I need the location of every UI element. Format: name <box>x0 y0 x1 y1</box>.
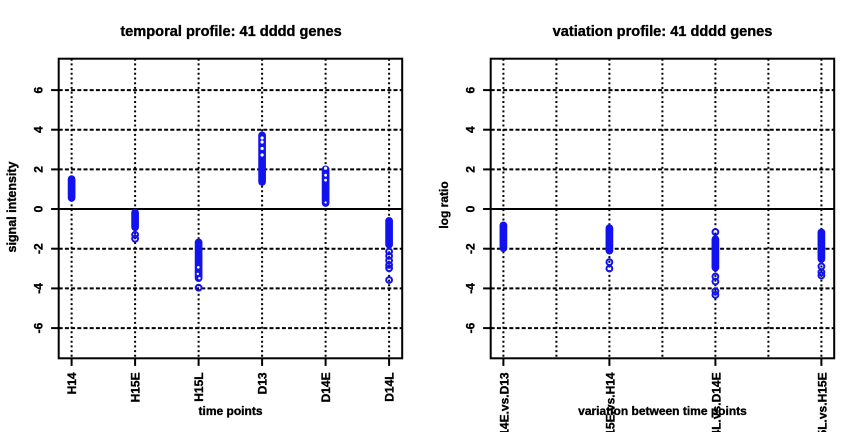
svg-text:D14E: D14E <box>319 372 333 402</box>
svg-text:2: 2 <box>464 166 478 173</box>
strip D13 <box>258 135 266 182</box>
vertical dotted gridlines right <box>503 59 821 359</box>
svg-text:H15L: H15L <box>192 372 206 401</box>
horizontal dashed gridlines right <box>491 90 835 328</box>
svg-text:-6: -6 <box>464 322 478 333</box>
y tick labels left <box>32 86 46 333</box>
plot box right <box>491 59 835 359</box>
strip D14L <box>385 221 393 245</box>
svg-text:-2: -2 <box>464 243 478 254</box>
svg-text:-2: -2 <box>32 243 46 254</box>
strip D14E <box>322 169 330 203</box>
svg-text:H15E: H15E <box>128 372 142 402</box>
plot box left <box>59 59 403 359</box>
svg-text:0: 0 <box>464 205 478 212</box>
svg-text:H15L.vs.H15E: H15L.vs.H15E <box>816 372 830 432</box>
y tick labels right <box>464 86 478 333</box>
svg-text:log ratio: log ratio <box>437 181 451 228</box>
zero line right <box>491 208 835 210</box>
svg-text:H15E.vs.H14: H15E.vs.H14 <box>604 372 618 432</box>
strip D14L.vs.D14E <box>713 229 719 235</box>
svg-text:H14: H14 <box>65 372 79 394</box>
svg-text:6: 6 <box>464 86 478 93</box>
strip D14E.vs.D13 <box>500 225 508 248</box>
y ticks left <box>51 90 59 328</box>
svg-text:4: 4 <box>464 126 478 133</box>
strip H15E <box>131 213 139 228</box>
svg-text:4: 4 <box>32 126 46 133</box>
white holes texture left <box>197 136 328 279</box>
svg-text:-4: -4 <box>464 283 478 294</box>
svg-text:variation between time points: variation between time points <box>578 404 747 418</box>
x ticks left <box>72 358 390 366</box>
horizontal dashed gridlines left <box>59 90 403 328</box>
svg-text:D14L.vs.D14E: D14L.vs.D14E <box>710 372 724 432</box>
svg-text:vatiation profile: 41 dddd gen: vatiation profile: 41 dddd genes <box>553 24 773 40</box>
svg-text:D13: D13 <box>255 372 269 394</box>
svg-text:6: 6 <box>32 86 46 93</box>
svg-text:0: 0 <box>32 205 46 212</box>
data strips left <box>72 135 392 290</box>
svg-text:-6: -6 <box>32 322 46 333</box>
x ticks right <box>503 358 821 366</box>
svg-text:signal intensity: signal intensity <box>5 161 19 252</box>
strip H15L.vs.H15E <box>818 232 826 259</box>
svg-text:D14E.vs.D13: D14E.vs.D13 <box>498 372 512 432</box>
strip H15L <box>195 242 203 278</box>
data strips right <box>503 225 824 297</box>
svg-text:2: 2 <box>32 166 46 173</box>
svg-text:-4: -4 <box>32 283 46 294</box>
x tick labels left <box>65 372 397 402</box>
strip H14 <box>68 179 76 198</box>
svg-text:time points: time points <box>198 404 262 418</box>
zero line left <box>59 208 403 210</box>
svg-text:temporal profile: 41 dddd gene: temporal profile: 41 dddd genes <box>120 24 341 40</box>
vertical dotted gridlines left <box>72 59 390 359</box>
x tick labels right <box>498 372 830 432</box>
svg-text:D14L: D14L <box>382 372 396 401</box>
strip H15E.vs.H14 <box>606 228 614 251</box>
y ticks right <box>483 90 491 328</box>
